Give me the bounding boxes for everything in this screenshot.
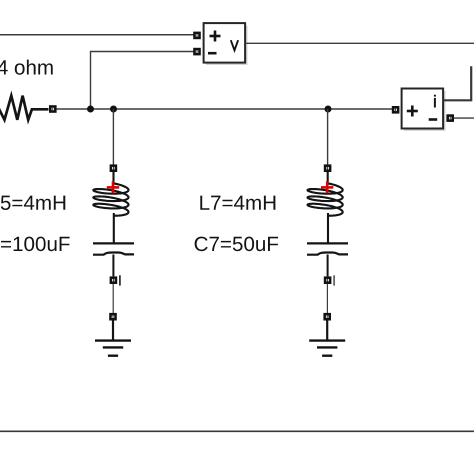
label: C7=50uF xyxy=(195,237,279,252)
inductor L7 coil xyxy=(308,172,343,244)
voltmeter U1 minus sign xyxy=(208,52,217,55)
ground symbol (branch 1) xyxy=(95,320,131,355)
ammeter U2 letter i xyxy=(434,95,436,108)
wire: bus down to branch 2 top port xyxy=(327,109,329,165)
ammeter U2 left port xyxy=(392,106,400,114)
resistor R output port xyxy=(49,105,57,113)
ground block port (branch 2) xyxy=(323,313,331,321)
branch 1 port tick label xyxy=(119,275,121,285)
capacitor C5 plates xyxy=(93,243,134,254)
voltmeter U1 body xyxy=(204,23,248,65)
voltmeter U1 input port + xyxy=(193,32,201,40)
wire: ammeter i output elbow up xyxy=(444,66,472,100)
wire: voltmeter measurement output to right edge xyxy=(245,42,474,44)
label: C5=100uF (cropped C5) xyxy=(0,237,70,252)
wire: top net from off-screen source to voltmeter + port xyxy=(0,34,194,36)
wire: bus down to branch 1 top port xyxy=(112,109,114,165)
wire: voltmeter - port elbow down to main bus xyxy=(91,52,194,109)
wire: branch 2 to ground port xyxy=(326,284,328,313)
wire: branch 1 to ground port xyxy=(112,284,114,313)
wire: C5 bottom to branch port xyxy=(112,255,114,277)
inductor L7 polarity red plus xyxy=(321,181,333,193)
figure separator rule xyxy=(0,430,474,432)
wire: C7 bottom to branch port xyxy=(327,255,329,277)
junction: node at branch L7C7 xyxy=(325,106,332,113)
junction: node at branch L5C5 xyxy=(110,106,117,113)
ammeter U2 body xyxy=(402,89,446,131)
branch 1 bottom port xyxy=(110,276,118,284)
inductor L5 coil xyxy=(93,172,128,244)
label: L7=4mH xyxy=(200,196,275,210)
ammeter U2 minus sign xyxy=(429,118,438,121)
ground symbol (branch 2) xyxy=(309,320,345,355)
branch 2 port tick label xyxy=(333,275,335,285)
resistor R 4 ohm zigzag xyxy=(0,96,49,120)
voltmeter U1 plus sign xyxy=(210,31,221,42)
wire: main bus from resistor to ammeter xyxy=(56,108,392,110)
wire: ammeter - port to right edge xyxy=(454,117,474,119)
ammeter U2 plus sign xyxy=(407,106,418,117)
capacitor C7 plates xyxy=(307,243,348,254)
label: L5=4mH (cropped L) xyxy=(0,196,65,210)
ammeter U2 right port xyxy=(446,114,454,122)
inductor L5 polarity red plus xyxy=(107,181,119,193)
label: 4 ohm xyxy=(0,60,53,75)
junction: node at x=90.5 xyxy=(87,106,94,113)
voltmeter U1 input port - xyxy=(193,48,201,56)
ground block port (branch 1) xyxy=(109,313,117,321)
voltmeter U1 letter v xyxy=(231,40,238,50)
branch 2 (L7 C7) top port xyxy=(324,164,332,172)
branch 2 bottom port xyxy=(324,276,332,284)
branch 1 (L5 C5) top port xyxy=(110,164,118,172)
